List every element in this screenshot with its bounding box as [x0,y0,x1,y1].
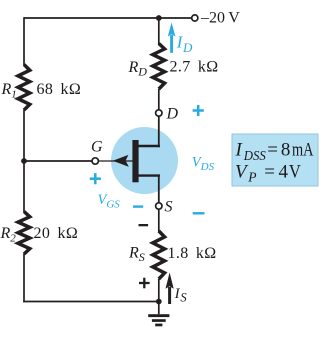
wire left rail vertical bottom [23,254,25,303]
JFET body circle [111,127,178,194]
svg-text:20 kΩ: 20 kΩ [34,225,79,242]
wire S to RS [158,209,160,232]
wire bottom horizontal [23,301,159,303]
node G open circle [92,158,98,164]
node junction top (drain branch) [156,15,162,21]
svg-text:P: P [247,170,256,185]
wire right rail top segment [158,18,160,44]
wire RS to ground node [158,279,160,302]
svg-text:–20 V: –20 V [200,10,240,27]
wire RD to node D [158,89,160,110]
svg-text:68 kΩ: 68 kΩ [37,81,82,98]
resistor RS [153,231,165,279]
JFET drain lead horizontal [138,145,160,147]
svg-text:V: V [289,162,301,183]
JFET drain lead vertical [158,116,160,147]
svg-text:1.8 kΩ: 1.8 kΩ [168,245,217,262]
resistor RD [153,44,165,90]
resistor R2 [18,212,30,255]
current arrow ID (blue) [168,23,176,53]
minus sign (black) above RS [139,224,149,226]
JFET channel bar [132,140,138,182]
minus sign (blue) right of S [193,212,205,214]
svg-text:D: D [166,106,179,123]
node junction on left rail [21,158,27,164]
ground [148,302,169,327]
node D open circle [156,110,162,116]
wire left rail vertical middle [23,110,25,213]
JFET source lead horizontal [138,174,160,176]
svg-text:mA: mA [292,140,314,161]
terminal -20V open circle [192,15,198,21]
svg-text:G: G [91,138,103,155]
svg-text:8: 8 [281,140,291,161]
svg-text:4: 4 [279,162,289,183]
svg-text:=: = [264,162,275,183]
node junction bottom [156,299,162,305]
gate arrowhead (p-channel, pointing out) [113,155,129,167]
plus sign (blue) at gate [90,173,101,184]
plus sign (blue) at drain [193,105,204,116]
svg-text:2.7 kΩ: 2.7 kΩ [170,58,219,75]
svg-text:=: = [267,140,278,161]
wire left rail vertical top [23,17,25,65]
wire top horizontal [24,17,192,19]
gate thin lead into bar [99,160,133,162]
current arrow IS (black) [166,273,174,305]
plus sign (black) below RS [139,278,150,289]
wire gate from left rail [24,160,92,162]
node S open circle [156,203,162,209]
minus sign (blue) near VGS [133,205,143,207]
info box [232,134,318,186]
JFET source lead vertical [158,174,160,202]
resistor R1 [18,65,30,111]
svg-text:S: S [165,199,173,216]
